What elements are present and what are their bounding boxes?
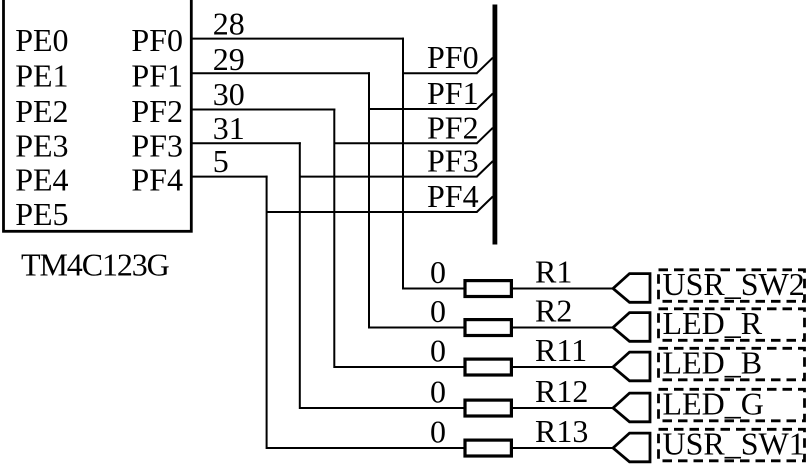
wire R1 right	[511, 288, 613, 290]
svg-text:0: 0	[430, 414, 446, 450]
resistor R2	[465, 320, 511, 336]
wire PF4 vertical	[266, 176, 268, 449]
svg-text:USR_SW2: USR_SW2	[663, 266, 805, 302]
wire PF0 pin 28 horizontal	[191, 38, 404, 40]
svg-text:31: 31	[213, 110, 245, 146]
wire PF2 pin 30 horizontal	[191, 109, 335, 111]
svg-text:PE1: PE1	[15, 57, 68, 93]
svg-text:PF0: PF0	[427, 39, 479, 75]
bus entry PF2 diagonal	[477, 128, 493, 144]
svg-text:R1: R1	[535, 254, 572, 290]
wire R13 right	[511, 447, 613, 449]
svg-text:LED_B: LED_B	[663, 345, 763, 381]
dashed box LED_G	[659, 389, 805, 421]
wire R11 left	[334, 366, 465, 368]
port flag LED_B	[613, 352, 650, 381]
bus entry PF3 diagonal	[477, 161, 493, 177]
svg-text:28: 28	[213, 5, 245, 41]
wire PF1 vertical	[368, 72, 370, 328]
resistor R13	[465, 440, 511, 456]
svg-text:PE5: PE5	[15, 196, 68, 232]
port flag LED_G	[613, 393, 650, 422]
wire R2 right	[511, 327, 613, 329]
svg-text:PF0: PF0	[131, 22, 183, 58]
svg-text:5: 5	[213, 143, 229, 179]
svg-text:TM4C123G: TM4C123G	[21, 247, 170, 283]
bus entry PF1 horizontal	[369, 108, 478, 110]
bus entry PF4 horizontal	[267, 211, 478, 213]
resistor R11	[465, 359, 511, 375]
bus bar	[493, 5, 498, 245]
svg-text:PF3: PF3	[131, 128, 183, 164]
op-amp U1 TM4C123G IC body	[4, 0, 192, 231]
svg-text:PE2: PE2	[15, 93, 68, 129]
svg-text:0: 0	[430, 254, 446, 290]
svg-text:29: 29	[213, 41, 245, 77]
bus entry PF0 diagonal	[477, 58, 493, 73]
bus entry PF4 diagonal	[477, 197, 493, 213]
svg-text:PF3: PF3	[427, 143, 479, 179]
port flag LED_R	[613, 313, 650, 342]
svg-text:0: 0	[430, 293, 446, 329]
svg-text:LED_G: LED_G	[663, 386, 764, 422]
resistor R1	[465, 281, 511, 297]
svg-text:PE4: PE4	[15, 162, 68, 198]
port flag USR_SW2	[613, 274, 650, 303]
wire R11 right	[511, 366, 613, 368]
wire R13 left	[267, 447, 465, 449]
bus entry PF0 horizontal	[403, 72, 478, 74]
svg-text:PF1: PF1	[131, 57, 183, 93]
dashed box USR_SW2	[659, 270, 805, 302]
wire PF2 vertical	[333, 109, 335, 369]
wire R1 left	[403, 288, 465, 290]
dashed box LED_B	[659, 348, 805, 380]
svg-text:LED_R: LED_R	[663, 305, 763, 341]
resistor R12	[465, 400, 511, 416]
svg-text:R2: R2	[535, 293, 572, 329]
wire R12 right	[511, 407, 613, 409]
wire R2 left	[369, 327, 465, 329]
wire PF4 pin 5 horizontal	[191, 176, 267, 178]
svg-text:PE3: PE3	[15, 128, 68, 164]
svg-text:PF4: PF4	[131, 162, 183, 198]
bus entry PF1 diagonal	[477, 94, 493, 110]
svg-text:R12: R12	[535, 373, 588, 409]
svg-text:USR_SW1: USR_SW1	[663, 426, 805, 462]
svg-text:PF2: PF2	[131, 93, 183, 129]
dashed box LED_R	[659, 309, 805, 341]
svg-text:0: 0	[430, 374, 446, 410]
svg-text:R11: R11	[535, 332, 587, 368]
wire PF3 vertical	[299, 142, 301, 409]
svg-text:PF2: PF2	[427, 109, 479, 145]
wire PF3 pin 31 horizontal	[191, 142, 300, 144]
svg-text:PE0: PE0	[15, 22, 68, 58]
wire PF0 vertical	[402, 38, 404, 290]
bus entry PF3 horizontal	[300, 176, 478, 178]
wire R12 left	[300, 407, 465, 409]
bus entry PF2 horizontal	[334, 142, 477, 144]
wire PF1 pin 29 horizontal	[191, 72, 370, 74]
port flag USR_SW1	[613, 433, 650, 462]
dashed box USR_SW1	[659, 429, 805, 461]
svg-text:PF1: PF1	[427, 75, 479, 111]
svg-text:0: 0	[430, 333, 446, 369]
svg-text:30: 30	[213, 76, 245, 112]
svg-text:PF4: PF4	[427, 178, 479, 214]
svg-text:R13: R13	[535, 413, 588, 449]
